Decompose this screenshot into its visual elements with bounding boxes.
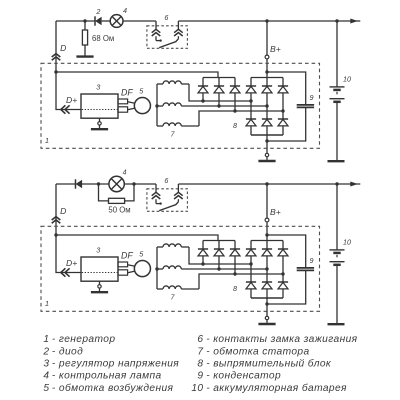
node: stator neutral (upper) bbox=[155, 104, 158, 107]
switch movable contact right with chevrons (upper) bbox=[159, 21, 183, 48]
svg-text:- аккумуляторная батарея: - аккумуляторная батарея bbox=[206, 382, 347, 394]
regulator output terminals (upper) bbox=[118, 99, 135, 112]
wire: D+ drop to regulator (lower) bbox=[56, 235, 81, 273]
svg-text:7: 7 bbox=[171, 293, 176, 302]
wire: diode to lamp (upper) bbox=[102, 20, 111, 22]
svg-text:- конденсатор: - конденсатор bbox=[206, 371, 281, 382]
svg-text:3: 3 bbox=[96, 245, 100, 254]
connector chevrons on D+ wire (lower) bbox=[61, 268, 70, 276]
field diode rail (upper) bbox=[203, 77, 235, 79]
ignition switch box 6 dashed outline (lower) bbox=[147, 189, 188, 212]
arrow to loads at right end (upper) bbox=[350, 19, 358, 24]
lamp 4 (charge indicator, lower) bbox=[109, 176, 124, 191]
lamp 4 (charge indicator, upper) bbox=[110, 15, 123, 28]
node: field diode 2 to phase (upper) bbox=[217, 104, 220, 107]
battery ground bar (lower) bbox=[328, 323, 345, 325]
svg-text:D+: D+ bbox=[66, 95, 77, 105]
voltage regulator 3 body (lower) bbox=[81, 257, 118, 281]
rectifier positive diode 1 (upper) bbox=[246, 78, 256, 120]
wire: lamp to right branch node (lower) bbox=[124, 183, 156, 185]
svg-text:- регулятор напряжения: - регулятор напряжения bbox=[52, 359, 179, 370]
rectifier bottom rail (lower) bbox=[251, 297, 283, 299]
rectifier negative diode 2 (lower) bbox=[262, 282, 272, 298]
ground bar below 68 Om resistor bbox=[76, 55, 93, 57]
field diode 2 (lower) bbox=[214, 241, 224, 270]
svg-text:6: 6 bbox=[164, 13, 168, 22]
field diode 2 (upper) bbox=[214, 78, 224, 107]
generator box 1 dashed outline (upper) bbox=[41, 63, 320, 148]
wire: lower circuit D terminal vertical bbox=[55, 184, 57, 235]
field diode rail (lower) bbox=[203, 240, 235, 242]
rectifier negative diode 3 (upper) bbox=[278, 119, 288, 135]
wire: upper circuit D terminal vertical bbox=[55, 21, 57, 72]
wire: phase 2 (upper) bbox=[181, 105, 267, 107]
rectifier positive diode 3 (lower) bbox=[278, 241, 288, 283]
stator winding 7 (lower) bbox=[157, 244, 199, 289]
rectifier negative diode 2 (upper) bbox=[262, 119, 272, 135]
svg-text:B+: B+ bbox=[270, 207, 281, 217]
svg-text:7: 7 bbox=[197, 346, 203, 357]
wire: switch to B+ and battery rail (lower) bbox=[178, 183, 360, 185]
svg-text:D: D bbox=[60, 43, 66, 53]
svg-text:- выпрямительный блок: - выпрямительный блок bbox=[206, 358, 332, 370]
node: battery tap (lower) bbox=[335, 182, 338, 185]
node: field diode 2 to phase (lower) bbox=[217, 267, 220, 270]
svg-text:4: 4 bbox=[43, 371, 49, 382]
rectifier negative diode 1 (lower) bbox=[246, 282, 256, 298]
wire: parallel resistor branch (lower) bbox=[99, 184, 135, 201]
battery ground bar (upper) bbox=[328, 160, 345, 162]
svg-text:1: 1 bbox=[45, 136, 49, 145]
resistor 50 Om body (lower) bbox=[109, 198, 125, 203]
node: field diode 3 to phase (upper) bbox=[233, 109, 236, 112]
field diode 3 (upper) bbox=[230, 78, 240, 112]
svg-text:68 Ом: 68 Ом bbox=[92, 34, 114, 43]
node: D junction (lower) bbox=[54, 233, 57, 236]
wire: phase 3 (lower) bbox=[199, 274, 283, 289]
svg-text:- генератор: - генератор bbox=[52, 334, 116, 345]
rectifier positive diode 3 (upper) bbox=[278, 78, 288, 120]
stator winding 7 (upper) bbox=[157, 81, 199, 126]
wire: rectifier negative to ground (lower) bbox=[266, 298, 268, 316]
node: D junction (upper) bbox=[54, 70, 57, 73]
node: B+ to capacitor tap (upper) bbox=[265, 70, 268, 73]
battery 10 (lower) bbox=[330, 184, 345, 324]
node: B+ tap (lower) bbox=[265, 182, 268, 185]
rectifier positive diode 1 (lower) bbox=[246, 241, 256, 283]
node: stator neutral (lower) bbox=[155, 267, 158, 270]
battery 10 (upper) bbox=[330, 21, 345, 161]
svg-text:B+: B+ bbox=[270, 44, 281, 54]
node: phase 1 to bridge (lower) bbox=[249, 262, 252, 265]
node: negative rail capacitor tap (upper) bbox=[265, 139, 268, 142]
node: battery tap (upper) bbox=[335, 19, 338, 22]
svg-text:4: 4 bbox=[123, 168, 127, 177]
voltage regulator 3 body (upper) bbox=[81, 94, 118, 118]
svg-text:- обмотка возбуждения: - обмотка возбуждения bbox=[52, 382, 174, 394]
wire: phase 3 (upper) bbox=[199, 111, 283, 126]
svg-text:D+: D+ bbox=[66, 258, 77, 268]
generator ground (lower) bbox=[258, 316, 275, 324]
wire: diode to lamp branch node (lower) bbox=[82, 183, 109, 185]
rectifier negative diode 1 (upper) bbox=[246, 119, 256, 135]
terminal circle B+ (lower) bbox=[265, 218, 269, 222]
node: junction of resistor branch (upper) bbox=[83, 19, 86, 22]
node: field diode 3 to phase (lower) bbox=[233, 272, 236, 275]
rectifier bottom rail (upper) bbox=[251, 134, 283, 136]
node: field diode 1 to phase (upper) bbox=[201, 99, 204, 102]
svg-text:6: 6 bbox=[164, 176, 168, 185]
terminal circle B+ (upper) bbox=[265, 55, 269, 59]
wire: lamp to ignition switch (upper) bbox=[123, 20, 156, 22]
wire: phase 2 (lower) bbox=[181, 268, 267, 270]
regulator output terminals (lower) bbox=[118, 262, 135, 275]
regulator ground (lower) bbox=[91, 281, 108, 292]
wire: B+ vertical (upper) bbox=[266, 21, 268, 55]
switch movable contact right with chevrons (lower) bbox=[159, 184, 183, 211]
diode 2 (blocking diode, lower) bbox=[76, 179, 82, 188]
svg-text:8: 8 bbox=[233, 121, 237, 130]
svg-text:1: 1 bbox=[43, 334, 49, 345]
svg-text:- контакты замка зажигания: - контакты замка зажигания bbox=[206, 334, 357, 345]
node: lamp/resistor parallel branch left (lower) bbox=[97, 182, 100, 185]
wire: phase 1 (lower) bbox=[189, 247, 251, 264]
wire: D junction feed to field diodes (lower) bbox=[56, 235, 218, 241]
svg-text:- обмотка статора: - обмотка статора bbox=[206, 345, 309, 357]
field diode 3 (lower) bbox=[230, 241, 240, 275]
node: phase 1 to bridge (upper) bbox=[249, 99, 252, 102]
wire: B+ vertical (lower) bbox=[266, 184, 268, 218]
node: phase 3 to bridge (upper) bbox=[281, 109, 284, 112]
svg-text:- контрольная лампа: - контрольная лампа bbox=[52, 371, 162, 382]
svg-text:D: D bbox=[60, 206, 66, 216]
svg-text:50 Ом: 50 Ом bbox=[108, 206, 130, 215]
svg-text:5: 5 bbox=[139, 249, 144, 258]
switch fixed contact left with chevrons (upper) bbox=[152, 21, 162, 42]
svg-text:3: 3 bbox=[43, 359, 49, 370]
svg-text:8: 8 bbox=[197, 359, 203, 370]
connector chevrons on D wire (lower) bbox=[52, 217, 61, 224]
diode 2 (blocking diode, upper) bbox=[95, 16, 101, 25]
node: phase 2 to bridge (lower) bbox=[265, 267, 268, 270]
svg-text:DF: DF bbox=[121, 250, 133, 260]
svg-text:1: 1 bbox=[45, 299, 49, 308]
connector chevrons on D+ wire (upper) bbox=[61, 105, 70, 113]
wire: resistor to ground bbox=[84, 45, 86, 56]
svg-text:6: 6 bbox=[197, 334, 203, 345]
rectifier positive diode 2 (lower) bbox=[262, 241, 272, 283]
svg-text:2: 2 bbox=[42, 346, 49, 357]
svg-text:3: 3 bbox=[96, 82, 100, 91]
resistor 68 Om body bbox=[82, 30, 87, 45]
svg-text:10: 10 bbox=[191, 383, 203, 394]
wire: D+ drop to regulator (upper) bbox=[56, 72, 81, 110]
generator box 1 dashed outline (lower) bbox=[41, 226, 320, 311]
node: field diode 1 to phase (lower) bbox=[201, 262, 204, 265]
svg-text:- диод: - диод bbox=[52, 346, 83, 357]
rectifier top rail (upper) bbox=[251, 77, 283, 79]
svg-text:5: 5 bbox=[43, 383, 49, 394]
field winding 5 (rotor circle) (upper) bbox=[134, 98, 150, 114]
switch fixed contact left with chevrons (lower) bbox=[152, 184, 162, 205]
node: lamp/resistor parallel branch right (lower) bbox=[132, 182, 135, 185]
node: B+ to capacitor tap (lower) bbox=[265, 233, 268, 236]
rectifier positive diode 2 (upper) bbox=[262, 78, 272, 120]
rectifier negative diode 3 (lower) bbox=[278, 282, 288, 298]
svg-text:10: 10 bbox=[343, 238, 351, 247]
svg-text:DF: DF bbox=[121, 87, 133, 97]
svg-text:5: 5 bbox=[139, 86, 144, 95]
svg-text:9: 9 bbox=[197, 371, 203, 382]
generator ground (upper) bbox=[258, 153, 275, 161]
wire: top rail from D corner to lamp section (upper) bbox=[56, 20, 95, 22]
svg-text:7: 7 bbox=[171, 130, 176, 139]
svg-text:4: 4 bbox=[123, 6, 127, 15]
wire: rectifier negative to ground (upper) bbox=[266, 135, 268, 153]
wire: D junction feed to field diodes (upper) bbox=[56, 72, 218, 78]
svg-text:2: 2 bbox=[95, 7, 100, 16]
resistor 68 Ohm branch wire bbox=[84, 21, 86, 30]
svg-text:9: 9 bbox=[310, 256, 314, 265]
capacitor 9 (upper) bbox=[267, 72, 314, 141]
node: B+ tap (upper) bbox=[265, 19, 268, 22]
node: negative rail capacitor tap (lower) bbox=[265, 302, 268, 305]
wire: switch to B+ and battery rail (upper) bbox=[178, 20, 360, 22]
arrow to loads at right end (lower) bbox=[350, 182, 358, 187]
field diode 1 (upper) bbox=[198, 78, 208, 102]
node: phase 3 to bridge (lower) bbox=[281, 272, 284, 275]
svg-text:8: 8 bbox=[233, 284, 237, 293]
node: phase 2 to bridge (upper) bbox=[265, 104, 268, 107]
ignition switch box 6 dashed outline (upper) bbox=[147, 26, 188, 49]
wire: top rail from D corner to diode (lower) bbox=[56, 183, 76, 185]
capacitor 9 (lower) bbox=[267, 235, 314, 304]
rectifier top rail (lower) bbox=[251, 240, 283, 242]
regulator ground (upper) bbox=[91, 118, 108, 129]
connector chevrons on D wire (upper) bbox=[52, 54, 61, 61]
wire: B+ into rectifier (upper) bbox=[266, 59, 268, 78]
wire: B+ into rectifier (lower) bbox=[266, 222, 268, 241]
legend bbox=[42, 334, 357, 394]
svg-text:10: 10 bbox=[343, 75, 351, 84]
wire: phase 1 (upper) bbox=[189, 84, 251, 101]
field winding 5 (rotor circle) (lower) bbox=[134, 261, 150, 277]
field diode 1 (lower) bbox=[198, 241, 208, 265]
svg-text:9: 9 bbox=[310, 93, 314, 102]
